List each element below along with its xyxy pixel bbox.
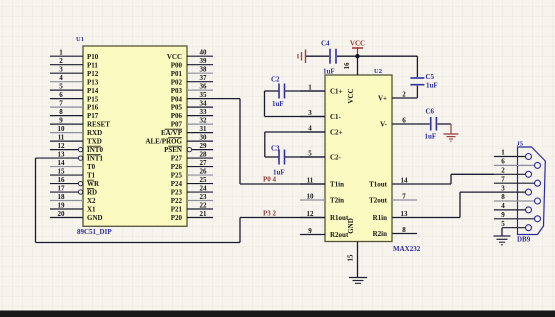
U1 pin 30 ALE/PROG [145,134,213,146]
svg-text:9: 9 [308,227,312,235]
U1 pin 35 P04 [171,91,240,103]
J5 pin 5 [501,220,531,231]
wire INT1 net: U1 pin13 left-down-right to U2 pin12 [36,158,326,242]
svg-text:7: 7 [402,193,406,201]
svg-text:5: 5 [308,150,312,158]
svg-text:17: 17 [58,185,66,193]
svg-text:P06: P06 [171,112,183,120]
U1 pin 11 TXD [50,134,102,146]
svg-text:P05: P05 [171,104,183,112]
U1 pin 27 P26 [171,159,213,171]
svg-text:T2out: T2out [369,197,388,205]
svg-text:18: 18 [58,193,66,201]
svg-text:C2+: C2+ [330,129,343,137]
svg-text:16: 16 [343,62,351,70]
U2 pin 5 C2- [300,150,342,162]
svg-text:2: 2 [59,57,63,65]
U1 pin 6 P15 [50,91,99,103]
svg-text:P03: P03 [171,87,183,95]
svg-text:10: 10 [307,193,315,201]
svg-text:DB9: DB9 [517,236,531,244]
svg-text:P10: P10 [87,53,99,61]
svg-text:7: 7 [59,100,63,108]
svg-text:11: 11 [58,134,65,142]
svg-text:WR: WR [87,180,100,188]
svg-text:1: 1 [308,84,312,92]
svg-text:P14: P14 [87,87,99,95]
svg-text:C6: C6 [426,108,435,116]
U2 pin 15 GND stub [347,242,358,278]
U1 pin 16 WR [50,176,100,188]
svg-text:12: 12 [58,142,66,150]
svg-text:37: 37 [200,74,208,82]
svg-text:C5: C5 [426,73,435,81]
U1 pin 24 P23 [171,185,213,197]
svg-text:R1out: R1out [330,214,349,222]
U2 pin 7 T2out [369,193,417,205]
J5 pin 7 [494,175,541,186]
svg-text:ALE/PROG: ALE/PROG [145,138,182,146]
svg-text:V-: V- [380,121,388,129]
wire P0.4 net: U1 pin35 to U2 pin11 [240,99,325,184]
U1 pin 23 P22 [171,193,213,205]
U1 pin 29 PSEN [164,142,213,154]
svg-text:27: 27 [200,159,208,167]
U1 pin 26 P25 [171,168,213,180]
U1 pin 22 P21 [171,202,213,214]
svg-text:38: 38 [200,66,208,74]
svg-text:GND: GND [87,214,103,222]
svg-text:13: 13 [401,210,409,218]
svg-text:V+: V+ [378,95,387,103]
U2 pin 9 R2out [300,227,349,239]
svg-text:1: 1 [501,149,505,157]
wire R1in: U2 pin13 to DB9 pin3 [417,192,494,217]
svg-text:4: 4 [308,125,312,133]
svg-text:40: 40 [200,49,208,57]
U2 pin 11 T1in [300,177,344,189]
svg-text:C1+: C1+ [330,88,343,96]
svg-text:6: 6 [501,158,505,166]
svg-text:2: 2 [402,91,406,99]
svg-text:1uF: 1uF [426,82,438,90]
svg-text:8: 8 [501,193,505,201]
U1 pin 2 P11 [50,57,98,69]
svg-text:5: 5 [501,220,505,228]
svg-text:2: 2 [501,167,505,175]
U1 pin 31 EA/VP [161,125,213,137]
U1 pin 39 P00 [171,57,213,69]
svg-text:6: 6 [402,117,406,125]
U1 pin 34 P05 [171,100,213,112]
svg-text:8: 8 [402,226,406,234]
svg-text:VCC: VCC [347,88,355,103]
svg-text:P27: P27 [171,155,183,163]
J5 pin 6 [494,158,541,169]
wire VCC to C5 [358,55,418,57]
svg-text:14: 14 [58,159,66,167]
U1 pin 8 P17 [50,108,99,120]
svg-text:P12: P12 [87,70,99,78]
U1 pin 33 P06 [171,108,213,120]
svg-text:31: 31 [200,125,208,133]
U1 pin 5 P14 [50,83,99,95]
svg-text:P07: P07 [171,121,183,129]
U2 pin 12 R1out [300,210,349,222]
connector J5 DB9 shell [518,147,546,235]
U1 pin 1 P10 [50,49,99,61]
svg-text:P17: P17 [87,112,99,120]
svg-text:P04: P04 [171,95,183,103]
svg-text:3: 3 [501,184,505,192]
svg-text:RD: RD [87,189,97,197]
ground at U2 pin 15 [349,278,367,284]
svg-text:C2: C2 [271,76,280,84]
svg-text:23: 23 [200,193,208,201]
svg-text:INT1: INT1 [87,155,103,163]
J5 pin 2 [494,167,532,178]
svg-text:P25: P25 [171,172,183,180]
svg-text:C1-: C1- [330,113,342,121]
svg-text:1uF: 1uF [323,68,335,76]
svg-text:R2out: R2out [330,231,349,239]
J5 pin 1 [494,149,532,160]
svg-text:6: 6 [59,91,63,99]
svg-text:X1: X1 [87,206,96,214]
svg-text:9: 9 [501,211,505,219]
U1 pin 10 RXD [50,125,102,137]
U2 pin 1 C1+ [300,84,343,96]
svg-text:U2: U2 [374,68,382,75]
U1 pin 36 P03 [171,83,213,95]
svg-text:RXD: RXD [87,129,102,137]
svg-text:C2-: C2- [330,154,342,162]
U2 pin 14 T1out [369,177,417,189]
U2 pin 6 V- [380,117,417,129]
U1 pin 20 GND [50,210,103,222]
svg-text:T1: T1 [87,172,96,180]
svg-text:PSEN: PSEN [164,146,182,154]
capacitor C2 [265,76,326,117]
svg-text:VCC: VCC [350,40,365,48]
svg-text:INT0: INT0 [87,146,103,154]
window bottom bar [0,311,555,317]
ground at C4 [298,50,306,64]
U1 pin 25 P24 [171,176,213,188]
svg-text:21: 21 [200,210,208,218]
svg-text:3: 3 [59,66,63,74]
svg-text:C4: C4 [321,40,330,48]
svg-text:10: 10 [58,125,66,133]
svg-text:32: 32 [200,117,208,125]
svg-text:P24: P24 [171,180,183,188]
IC U1 89C51 body [83,46,187,226]
svg-text:P23: P23 [171,189,183,197]
U1 pin 13 INT1 [36,151,104,163]
svg-text:35: 35 [200,91,208,99]
svg-text:29: 29 [200,142,208,150]
svg-text:RESET: RESET [87,121,110,129]
svg-text:24: 24 [200,185,208,193]
junction node VCC [355,54,359,58]
svg-text:1uF: 1uF [273,169,285,177]
U1 pin 19 X1 [50,202,96,214]
U1 pin 21 P20 [171,210,213,222]
svg-text:36: 36 [200,83,208,91]
U1 pin 37 P02 [171,74,213,86]
svg-text:P16: P16 [87,104,99,112]
svg-text:28: 28 [200,151,208,159]
svg-text:P13: P13 [87,78,99,86]
capacitor C3 [265,132,325,177]
U2 pin 10 T2in [300,193,344,205]
svg-text:T1out: T1out [369,181,388,189]
ground at C6 [444,124,459,141]
U1 pin 4 P13 [50,74,99,86]
svg-text:14: 14 [401,177,409,185]
U1 pin 12 INT0 [50,142,103,154]
svg-text:1uF: 1uF [272,100,284,108]
svg-text:P0 4: P0 4 [263,176,277,184]
svg-text:P22: P22 [171,197,183,205]
svg-text:25: 25 [200,176,208,184]
capacitor C4 [306,40,358,76]
svg-text:3: 3 [308,109,312,117]
U1 pin 9 RESET [50,117,110,129]
U1 pin 40 VCC [167,49,213,61]
svg-text:VCC: VCC [167,53,182,61]
U2 pin 2 V+ [378,91,417,103]
svg-text:MAX232: MAX232 [393,245,421,253]
svg-text:5: 5 [59,83,63,91]
J5 pin 3 [494,184,532,195]
svg-text:26: 26 [200,168,208,176]
svg-text:C3: C3 [271,145,280,153]
svg-text:T1in: T1in [330,181,344,189]
svg-text:R2in: R2in [373,230,388,238]
capacitor C5 [410,56,437,98]
IC U2 MAX232 body [325,75,392,242]
U2 pin 16 VCC stub [343,56,358,75]
U2 pin 3 C1- [300,109,342,121]
svg-text:4: 4 [59,74,63,82]
svg-text:P26: P26 [171,163,183,171]
capacitor C6 [417,108,451,141]
svg-text:20: 20 [58,210,66,218]
svg-text:9: 9 [59,117,63,125]
svg-text:33: 33 [200,108,208,116]
U1 pin 18 X2 [50,193,96,205]
svg-text:TXD: TXD [87,138,102,146]
svg-text:4: 4 [501,202,505,210]
U1 pin 3 P12 [50,66,99,78]
svg-text:15: 15 [58,168,66,176]
svg-text:P02: P02 [171,78,183,86]
U2 pin 8 R2in [373,226,417,238]
U2 pin 13 R1in [373,210,417,222]
svg-text:1: 1 [59,49,63,57]
svg-text:P11: P11 [87,61,98,69]
svg-text:U1: U1 [76,36,84,43]
svg-text:T0: T0 [87,163,96,171]
svg-text:EA/VP: EA/VP [161,129,183,137]
svg-text:15: 15 [347,254,355,262]
svg-text:8: 8 [59,108,63,116]
svg-text:P21: P21 [171,206,183,214]
U1 pin 28 P27 [171,151,213,163]
ground at J5 pin 5 [494,228,511,245]
svg-text:P3 2: P3 2 [263,210,277,218]
svg-text:1uF: 1uF [425,133,437,141]
svg-text:13: 13 [58,151,66,159]
svg-text:11: 11 [307,177,314,185]
svg-text:T2in: T2in [330,197,344,205]
svg-text:30: 30 [200,134,208,142]
svg-text:22: 22 [200,202,208,210]
U1 pin 17 RD [50,185,97,197]
svg-text:P20: P20 [171,214,183,222]
svg-text:19: 19 [58,202,66,210]
svg-text:J5: J5 [517,141,524,148]
J5 pin 4 [494,202,532,213]
svg-text:R1in: R1in [373,214,388,222]
wire T1out: U2 pin14 to DB9 pin2 [417,174,494,184]
U1 pin 15 T1 [50,168,96,180]
U1 pin 14 T0 [50,159,96,171]
svg-text:X2: X2 [87,197,96,205]
svg-text:16: 16 [58,176,66,184]
J5 pin 9 [494,211,541,222]
U1 pin 32 P07 [171,117,213,129]
svg-text:12: 12 [307,210,315,218]
power symbol VCC [350,40,365,57]
svg-text:P15: P15 [87,95,99,103]
U1 pin 38 P01 [171,66,213,78]
svg-text:P01: P01 [171,70,183,78]
svg-text:7: 7 [501,175,505,183]
U2 pin 4 C2+ [300,125,343,137]
J5 pin 8 [494,193,541,204]
svg-text:P00: P00 [171,61,183,69]
svg-text:39: 39 [200,57,208,65]
svg-text:89C51_DIP: 89C51_DIP [77,228,112,236]
svg-text:34: 34 [200,100,208,108]
U1 pin 7 P16 [50,100,99,112]
